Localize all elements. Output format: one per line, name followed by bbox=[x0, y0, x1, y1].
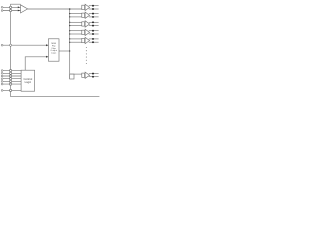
svg-text:Logic: Logic bbox=[51, 53, 57, 55]
svg-text:Logic: Logic bbox=[25, 80, 32, 84]
